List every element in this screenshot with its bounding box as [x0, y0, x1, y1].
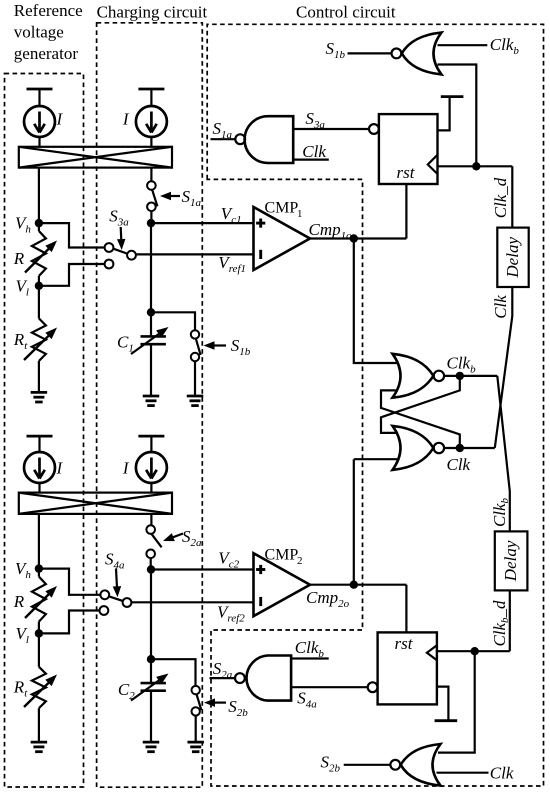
wire rst1 up to FF1	[405, 184, 407, 239]
wire S4a to FF2	[291, 686, 368, 688]
wire Rt to ground	[38, 361, 40, 392]
label Clk_b_d (rotated)	[490, 600, 511, 647]
arrow+label S3a	[109, 207, 129, 251]
wire Delay2 to FF2 node	[509, 590, 511, 651]
chopper box 1 (crossed)	[19, 147, 172, 168]
capacitor C2 (variable)	[131, 674, 169, 701]
wire node down to U6	[438, 651, 475, 752]
wire Vref1	[136, 253, 254, 255]
wire Cmp2o output	[310, 584, 406, 586]
label Vref1	[218, 253, 246, 275]
wire src to chopper	[38, 137, 40, 147]
node Vl2	[16, 624, 44, 646]
label I (ref bottom)	[56, 459, 64, 478]
wire S1a to Vc1 node	[150, 211, 152, 223]
node FF1 out / delay line	[472, 162, 480, 170]
svg-text:Clk_d: Clk_d	[491, 177, 510, 218]
switch S3a	[105, 243, 136, 268]
label Rt2	[13, 678, 28, 700]
wire Vc1-node down to C1 node	[150, 223, 152, 312]
svg-text:voltage: voltage	[14, 23, 64, 42]
wire cross Clk_b to U4	[381, 376, 460, 433]
label I (charging top)	[122, 110, 130, 129]
svg-text:Clk: Clk	[447, 455, 471, 474]
wire chopper2 to S2a	[150, 514, 152, 525]
label S1b	[326, 39, 346, 61]
current source I (ref top)	[24, 106, 55, 137]
label Cmp2o	[306, 588, 350, 610]
wire Vc2 node down to C2 node	[150, 570, 152, 660]
title: Control circuit	[296, 2, 396, 21]
wire Clk_b stub (U2)	[438, 44, 488, 46]
wire U4 lower input (Cmp2o)	[354, 458, 398, 460]
wire S2a input	[210, 677, 236, 679]
wire Rt2 to ground	[38, 708, 40, 742]
wire Vh2 to S4a top	[39, 569, 101, 595]
wire Clk_b slant to Delay2	[497, 376, 510, 532]
wire C2 to ground	[150, 691, 152, 742]
label C2	[118, 680, 135, 702]
wire to C1	[150, 312, 152, 336]
ground (C2)	[143, 742, 160, 752]
label Clk_b (latch)	[447, 354, 477, 376]
wire src to chopper2	[38, 483, 40, 493]
dashed box: reference voltage generator	[5, 74, 84, 788]
label rst (FF1)	[397, 163, 416, 182]
label S2b (gate U6)	[321, 753, 341, 775]
ground (S1b)	[187, 396, 204, 406]
node Cmp2o	[350, 581, 358, 589]
switch S1b	[191, 330, 201, 361]
label Vc1	[221, 204, 242, 226]
label Delay 2	[501, 540, 520, 582]
node Vl	[16, 276, 44, 298]
current source I (charging bottom)	[136, 452, 167, 483]
wire S2b to ground	[195, 716, 197, 743]
wire Clk_b out	[444, 375, 497, 377]
wire chopper2 to Vh2	[38, 514, 40, 569]
resistor Rt (variable)	[24, 318, 57, 361]
label R	[13, 249, 25, 268]
bubble U6	[390, 760, 400, 770]
switch S1a	[147, 181, 157, 211]
bubble U3	[434, 371, 444, 381]
label S4a (net)	[297, 689, 317, 711]
dashed box: control circuit (notched)	[207, 24, 543, 786]
nand gate U1 (left-pointing)	[245, 116, 294, 163]
capacitor C1 (variable)	[131, 327, 169, 354]
svg-text:generator: generator	[14, 44, 79, 63]
label Vref2	[217, 603, 245, 625]
node Clk_b	[456, 372, 464, 380]
nor gate U3 (latch top)	[393, 354, 434, 398]
wire cross Clk to U3	[381, 390, 460, 448]
label R2	[13, 592, 25, 611]
arrow+label S4a	[105, 550, 125, 598]
wire Cmp1o to latch	[354, 239, 398, 364]
node C1 top	[147, 308, 155, 316]
arrow+label S2b (switch)	[204, 697, 248, 719]
svg-text:Clk: Clk	[490, 764, 514, 783]
wire Cmp1o output	[310, 237, 406, 239]
node Vh	[15, 214, 43, 236]
nand gate U5 (left-pointing)	[247, 656, 292, 701]
op-amp CMP1	[254, 207, 311, 270]
wire Vl to Rt	[38, 286, 40, 319]
label Cmp1o	[309, 220, 353, 242]
node Cmp1o	[350, 234, 358, 242]
wire S2b input	[344, 764, 391, 766]
svg-text:rst: rst	[397, 163, 416, 182]
label I (ref top)	[56, 110, 64, 129]
resistor R2 (variable)	[25, 569, 57, 634]
flip-flop FF1 box	[379, 114, 438, 184]
wire node to S1b switch	[151, 312, 195, 330]
wire FF2 output	[437, 650, 510, 652]
bubble FF1 input	[369, 124, 379, 134]
svg-text:2: 2	[297, 555, 303, 567]
svg-text:Delay: Delay	[503, 237, 522, 279]
wire chopper to Vh	[38, 168, 40, 224]
bubble U2	[392, 49, 402, 59]
ground (S2b)	[187, 742, 204, 752]
label S3a (net)	[305, 109, 325, 131]
label Clk_b (U2)	[490, 35, 520, 57]
ground (ref2)	[31, 742, 48, 752]
wire Vc1 to comparator	[151, 222, 254, 224]
label Clk_b (rotated above Delay2)	[490, 497, 511, 527]
resistor R (variable)	[25, 223, 57, 286]
wire Delay1 to Clk node	[495, 287, 513, 448]
chopper box 2 (crossed)	[19, 493, 172, 514]
label CMP2	[265, 547, 303, 568]
wire to C2	[150, 659, 152, 683]
label CMP1	[265, 200, 303, 221]
supply bar (charging, top)	[138, 89, 164, 107]
label rst (FF2)	[395, 634, 414, 653]
wire Clk stub	[293, 159, 329, 161]
label Clk (below Delay1)	[491, 295, 510, 319]
wire rst2 down to FF2	[405, 585, 407, 633]
svg-text:Charging circuit: Charging circuit	[97, 2, 208, 21]
delay box 2	[495, 531, 528, 590]
svg-text:Clk: Clk	[302, 142, 326, 161]
clock wedge FF1	[428, 155, 438, 174]
flip-flop FF2 box	[378, 632, 437, 704]
wire Cmp2o to latch (up)	[353, 459, 355, 585]
label Rt	[13, 330, 28, 352]
label I (charging bottom)	[122, 459, 130, 478]
node Vc2	[147, 565, 155, 573]
wire Clk stub (U6)	[437, 772, 489, 774]
clock wedge FF2	[427, 645, 437, 660]
wire S2a to Vc2	[150, 558, 152, 569]
node Vc1	[147, 219, 155, 227]
bubble U4	[434, 443, 444, 453]
svg-text:1: 1	[297, 208, 303, 220]
switch S2b	[192, 686, 202, 716]
switch S4a	[100, 590, 132, 615]
svg-text:rst: rst	[395, 634, 414, 653]
dashed box: charging circuit	[97, 23, 203, 787]
svg-text:R: R	[13, 592, 25, 611]
wire Vl2 to S4a bottom	[39, 611, 100, 634]
wire Vl to switch S3a bottom	[39, 264, 105, 286]
label Clk (latch)	[447, 455, 471, 474]
bubble FF2 input	[368, 682, 378, 692]
nor gate U6 (left-pointing)	[401, 744, 441, 786]
svg-text:Clkb_d: Clkb_d	[490, 600, 511, 647]
wire S1a input	[211, 138, 236, 140]
bubble U1	[235, 134, 245, 144]
nor gate U4 (latch bottom)	[393, 426, 434, 470]
wire Clk_b stub (U5)	[291, 657, 329, 659]
supply bar (charging, bottom)	[138, 436, 164, 452]
switch S2a	[146, 525, 161, 558]
bubble U5	[235, 673, 245, 683]
svg-text:Control circuit: Control circuit	[296, 2, 396, 21]
node FF2 out	[471, 647, 479, 655]
resistor Rt2 (variable)	[24, 667, 57, 708]
wire S1b input	[348, 52, 392, 54]
supply bar (ref, top)	[27, 89, 53, 107]
label Delay 1	[503, 237, 522, 279]
svg-text:CMP: CMP	[265, 200, 299, 217]
svg-text:Reference: Reference	[14, 1, 83, 20]
wire Vh to switch S3a top	[39, 223, 105, 247]
label Clk_b (U5)	[295, 638, 325, 660]
arrow+label S2a (switch)	[163, 527, 202, 549]
op-amp CMP2	[254, 553, 311, 616]
arrow+label S1a (switch)	[160, 187, 202, 209]
label Clk (U1)	[302, 142, 326, 161]
title: Charging circuit	[97, 2, 208, 21]
wire C1 to ground	[150, 344, 152, 396]
node C2 top	[147, 655, 155, 663]
label Clk_d (rotated)	[491, 177, 510, 218]
label Vc2	[218, 549, 239, 571]
wire Vc2 to comparator	[151, 568, 254, 570]
ground (ref branch)	[31, 392, 48, 402]
wire S3a to FF1	[293, 128, 369, 130]
supply stem FF1	[438, 97, 464, 131]
wire Clk_d down to Delay1	[511, 166, 513, 227]
supply bar (ref, bottom)	[27, 436, 53, 452]
label S2a (gate)	[213, 659, 233, 681]
current source I (charging top)	[136, 106, 167, 137]
wire S1b to ground	[194, 361, 196, 396]
arrow+label S1b	[204, 336, 251, 358]
wire src to chopper2 b	[150, 483, 152, 493]
label Clk (U6)	[490, 764, 514, 783]
wire Clk out	[444, 447, 495, 449]
delay box 1	[497, 228, 528, 287]
wire chopper to S1a switch	[150, 168, 152, 182]
wire U2 to node	[438, 65, 477, 167]
wire Vl2 to Rt2	[38, 633, 40, 666]
wire FF1 output	[438, 165, 513, 167]
label S1a (gate)	[213, 119, 233, 141]
nor gate U2 (left-pointing)	[402, 33, 442, 75]
ground stem FF2	[435, 687, 458, 721]
wire src to chopper 2	[150, 137, 152, 147]
current source I (ref bottom)	[24, 452, 55, 483]
svg-text:R: R	[13, 249, 25, 268]
node Clk	[456, 444, 464, 452]
label C1	[117, 333, 134, 355]
svg-text:Clk: Clk	[491, 295, 510, 319]
title: Reference voltage generator	[14, 1, 83, 63]
wire Vref2	[131, 601, 253, 603]
wire node to S2b switch	[151, 659, 196, 686]
svg-text:Delay: Delay	[501, 540, 520, 582]
svg-text:CMP: CMP	[265, 547, 299, 564]
node Vh2	[15, 559, 43, 581]
ground (C1)	[143, 396, 160, 406]
